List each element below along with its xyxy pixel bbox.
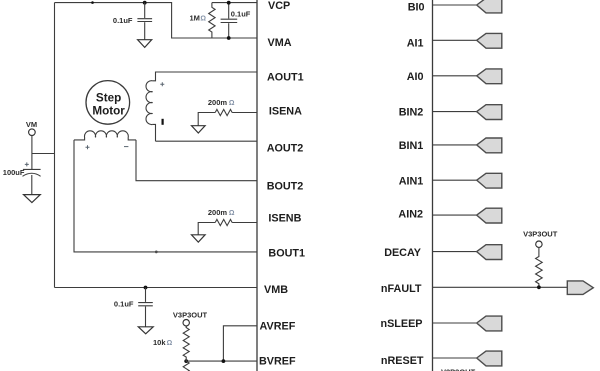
- pin label AOUT2: [267, 143, 304, 155]
- pin label AIN1: [399, 175, 424, 187]
- capacitor C1 0.1uF: [137, 3, 152, 40]
- terminal V3P3OUT bottom cropped: [441, 367, 476, 371]
- terminal V3P3OUT right: [523, 229, 558, 247]
- wire ISENA: [198, 113, 257, 126]
- svg-text:ISENB: ISENB: [268, 212, 301, 224]
- pin label VMB: [264, 284, 288, 296]
- wire VCP stub: [212, 2, 257, 4]
- svg-text:nFAULT: nFAULT: [381, 283, 422, 295]
- wire AVREF: [223, 326, 257, 361]
- value label R4 10k ohm: [153, 338, 173, 347]
- svg-text:VMB: VMB: [264, 284, 288, 296]
- wire BOUT2: [136, 140, 257, 181]
- wire AIN1: [433, 179, 477, 181]
- wire BVREF: [186, 360, 257, 362]
- svg-text:200m: 200m: [208, 208, 228, 217]
- connector AI0: [477, 69, 502, 84]
- svg-text:BIN1: BIN1: [399, 140, 424, 152]
- svg-text:Ω: Ω: [200, 16, 206, 23]
- connector AIN1: [477, 173, 502, 188]
- svg-text:Step: Step: [96, 92, 121, 105]
- svg-text:Ω: Ω: [229, 210, 235, 217]
- connector nSLEEP: [477, 316, 502, 331]
- svg-text:VM: VM: [26, 120, 37, 129]
- value label R2 200m ohm: [208, 98, 235, 107]
- wire DECAY: [433, 251, 477, 253]
- svg-text:nRESET: nRESET: [381, 355, 424, 367]
- pin label BIN2: [399, 107, 424, 119]
- node junction nFAULT pullup: [537, 285, 541, 289]
- value label C4 0.1uF: [114, 299, 134, 308]
- pin label DECAY: [384, 247, 422, 259]
- value label C5 100uF: [3, 168, 25, 177]
- connector nRESET: [477, 351, 502, 366]
- svg-text:0.1uF: 0.1uF: [114, 299, 134, 308]
- inductor motor winding A: [146, 81, 155, 141]
- pin label BIN1: [399, 140, 424, 152]
- current marker I winding A: [162, 119, 164, 125]
- connector BI0: [477, 0, 502, 13]
- stepper motor M1: [86, 81, 130, 125]
- wire AOUT2: [156, 140, 258, 142]
- svg-text:1M: 1M: [190, 14, 200, 23]
- resistor R5 pullup: [536, 247, 543, 287]
- svg-text:AIN1: AIN1: [399, 175, 424, 187]
- wire BIN2: [433, 111, 477, 113]
- resistor R1 1M: [209, 3, 215, 38]
- connector nFAULT output: [567, 281, 593, 295]
- svg-text:AI0: AI0: [407, 71, 424, 83]
- connector AI1: [477, 33, 502, 48]
- svg-text:10k: 10k: [153, 338, 166, 347]
- IC U1 body right edge: [432, 0, 434, 371]
- wire BOUT1: [74, 140, 257, 252]
- terminal V3P3OUT left: [173, 310, 208, 327]
- pin label BVREF: [259, 355, 296, 367]
- IC U1 body left edge: [256, 0, 258, 371]
- svg-text:Ω: Ω: [229, 100, 235, 107]
- svg-text:BIN2: BIN2: [399, 107, 424, 119]
- node junction C4 top: [144, 286, 148, 290]
- svg-text:BOUT1: BOUT1: [268, 247, 305, 259]
- wire VMB: [55, 287, 258, 289]
- node junction BVREF AVREF branch: [222, 359, 226, 363]
- ground ISENA: [192, 126, 206, 133]
- svg-text:V3P3OUT: V3P3OUT: [441, 367, 476, 371]
- wire AOUT1: [153, 72, 257, 81]
- svg-text:AOUT2: AOUT2: [267, 143, 304, 155]
- node junction BVREF resistor: [184, 359, 188, 363]
- capacitor C2 0.1uF: [221, 3, 238, 38]
- resistor R2 200m ISENA: [215, 109, 232, 115]
- connector BIN2: [477, 105, 502, 120]
- pin label BI0: [408, 1, 425, 13]
- capacitor C5 100uF polarized: [23, 162, 41, 194]
- pin label AI1: [407, 37, 424, 49]
- resistor R4 10k: [183, 326, 189, 361]
- svg-text:VMA: VMA: [268, 37, 292, 49]
- svg-text:AVREF: AVREF: [260, 321, 296, 333]
- wire AI1: [433, 39, 477, 41]
- wire BIN1: [433, 144, 477, 146]
- pin label AVREF: [260, 321, 296, 333]
- node junction C1 top: [143, 1, 147, 5]
- capacitor C4 0.1uF: [138, 288, 153, 327]
- svg-text:nSLEEP: nSLEEP: [381, 318, 423, 330]
- ground C4: [138, 327, 153, 334]
- svg-text:DECAY: DECAY: [384, 247, 422, 259]
- resistor R3 200m ISENB: [215, 219, 232, 225]
- wire AI0: [433, 75, 477, 77]
- polarity minus winding B: [124, 146, 128, 148]
- pin label ISENA: [269, 106, 302, 118]
- wire nFAULT: [433, 286, 568, 288]
- svg-text:ISENA: ISENA: [269, 106, 302, 118]
- pin label VCP: [268, 0, 290, 12]
- svg-text:Motor: Motor: [92, 105, 125, 118]
- wire BI0: [433, 4, 477, 6]
- resistor R6 10k lower cropped: [183, 361, 189, 371]
- svg-text:BOUT2: BOUT2: [267, 181, 304, 193]
- svg-text:AI1: AI1: [407, 37, 424, 49]
- wire VM to rail: [32, 153, 55, 155]
- inductor motor winding B: [74, 131, 136, 140]
- svg-text:AOUT1: AOUT1: [267, 72, 304, 84]
- svg-text:V3P3OUT: V3P3OUT: [173, 310, 208, 319]
- node junction BOUT1: [155, 251, 158, 254]
- ground C1: [138, 40, 152, 48]
- connector AIN2: [477, 208, 502, 223]
- pin label ISENB: [268, 212, 301, 224]
- pin label nRESET: [381, 355, 424, 367]
- svg-text:VCP: VCP: [268, 0, 290, 12]
- wire left VM rail: [54, 3, 56, 288]
- wire VM top rail to VMA pin: [55, 3, 258, 38]
- svg-text:0.1uF: 0.1uF: [231, 10, 251, 19]
- wire AIN2: [433, 214, 477, 216]
- polarity plus winding A: [160, 82, 164, 86]
- svg-text:100uF: 100uF: [3, 168, 25, 177]
- svg-text:AIN2: AIN2: [398, 209, 423, 221]
- svg-text:V3P3OUT: V3P3OUT: [523, 229, 558, 238]
- node junction top rail artifact: [91, 1, 94, 4]
- pin label BOUT2: [267, 181, 304, 193]
- value label R1 1M ohm: [190, 14, 207, 23]
- svg-text:0.1uF: 0.1uF: [113, 16, 133, 25]
- svg-text:200m: 200m: [208, 98, 228, 107]
- pin label BOUT1: [268, 247, 305, 259]
- pin label AIN2: [398, 209, 423, 221]
- wire ISENB: [198, 223, 257, 235]
- value label C2 0.1uF: [231, 10, 251, 19]
- node junction C2 bottom: [227, 36, 231, 40]
- pin label nSLEEP: [381, 318, 423, 330]
- svg-text:Ω: Ω: [167, 340, 173, 347]
- wire nSLEEP: [433, 322, 477, 324]
- wire nRESET: [433, 357, 477, 359]
- value label R3 200m ohm: [208, 208, 235, 217]
- ground C5: [24, 195, 41, 203]
- svg-text:BVREF: BVREF: [259, 355, 296, 367]
- terminal VM: [26, 120, 37, 169]
- connector BIN1: [477, 138, 502, 153]
- svg-text:BI0: BI0: [408, 1, 425, 13]
- ground ISENB: [192, 235, 206, 242]
- pin label VMA: [268, 37, 292, 49]
- pin label nFAULT: [381, 283, 422, 295]
- value label C1 0.1uF: [113, 16, 133, 25]
- polarity plus winding B: [86, 145, 90, 149]
- connector DECAY: [477, 245, 502, 260]
- node junction C2 top: [227, 1, 231, 5]
- pin label AI0: [407, 71, 424, 83]
- pin label AOUT1: [267, 72, 304, 84]
